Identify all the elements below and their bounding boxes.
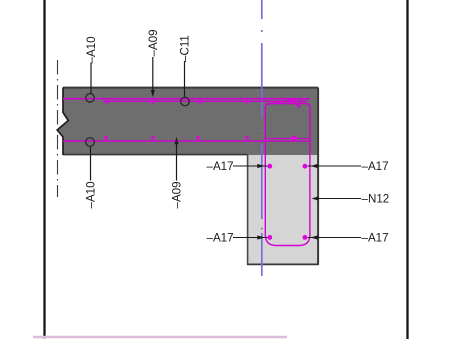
svg-text:–A17: –A17 bbox=[362, 160, 389, 173]
svg-text:–N12: –N12 bbox=[362, 193, 390, 206]
A17 corner bar dot top-left bbox=[267, 164, 272, 169]
rebar A09 bottom bar line bbox=[63, 140, 311, 142]
A17 corner bar dot bottom-right bbox=[303, 235, 308, 240]
top corner bar dot bbox=[290, 99, 295, 104]
label A17 right-bottom arrowhead bbox=[311, 235, 318, 239]
label A10 top leader bbox=[90, 63, 92, 94]
label N12 leader bbox=[318, 198, 361, 200]
stirrup N12 outline bbox=[265, 104, 310, 246]
label A17 right-bottom leader bbox=[308, 237, 361, 239]
beam/slab right edge bbox=[317, 88, 319, 265]
svg-text:–A17: –A17 bbox=[207, 160, 234, 173]
svg-text:–A09: –A09 bbox=[147, 29, 160, 56]
rebar A09 top bar line bbox=[63, 98, 310, 100]
label A10 bottom leader bbox=[90, 147, 92, 181]
slab bottom edge bbox=[63, 154, 248, 156]
bottom distribution bar dots bbox=[104, 136, 248, 139]
label A09 top arrowhead bbox=[151, 90, 155, 97]
A17 corner bar dot top-right bbox=[303, 164, 308, 169]
rebar joint bottom layer line bbox=[265, 137, 309, 139]
A17 corner bar dot bottom-left bbox=[267, 235, 272, 240]
centerline (black dash-dot, left) bbox=[57, 60, 59, 197]
beam cross-section fill bbox=[248, 155, 319, 265]
label A17 right-top arrowhead bbox=[311, 164, 318, 168]
slab cross-section fill bbox=[57, 88, 318, 156]
slab top edge bbox=[63, 87, 318, 89]
label A17 left-bottom leader bbox=[233, 237, 267, 239]
label A17 left-top arrowhead bbox=[257, 164, 264, 168]
svg-text:–C11: –C11 bbox=[179, 35, 192, 62]
svg-text:–A17: –A17 bbox=[207, 232, 234, 245]
label A09 top leader bbox=[152, 57, 154, 91]
beam bottom edge bbox=[247, 263, 319, 265]
rebar top second layer line bbox=[103, 100, 307, 102]
stirrup hook tail bbox=[299, 99, 301, 108]
A10 bar circle top bbox=[86, 94, 95, 103]
label A17 right-top leader bbox=[308, 165, 361, 167]
label A17 left-bottom arrowhead bbox=[257, 235, 264, 239]
C11 bar circle bbox=[181, 97, 190, 106]
border frame right line bbox=[406, 0, 408, 339]
stirrup hook diagonal 2 bbox=[289, 99, 300, 108]
blue section centerline (dash-dot) bbox=[261, 0, 263, 276]
label C11 top leader bbox=[184, 61, 186, 97]
label A09 bottom leader bbox=[176, 143, 178, 181]
stirrup hook diagonal 1 bbox=[267, 99, 296, 105]
svg-text:–A10: –A10 bbox=[85, 36, 98, 63]
svg-text:–A09: –A09 bbox=[171, 181, 184, 208]
border frame left line bbox=[43, 0, 45, 339]
svg-text:–A17: –A17 bbox=[362, 232, 389, 245]
top distribution bar dots bbox=[106, 100, 249, 103]
beam left edge bbox=[247, 155, 249, 265]
pink bottom edge line bbox=[33, 336, 287, 339]
label A09 bottom arrowhead bbox=[175, 137, 179, 145]
A10 bar circle bottom bbox=[86, 138, 95, 147]
label N12 arrowhead bbox=[312, 196, 319, 200]
label A17 left-top leader bbox=[233, 165, 267, 167]
bottom corner bar dot bbox=[292, 136, 297, 141]
slab left break edge bbox=[57, 88, 68, 156]
svg-text:–A10: –A10 bbox=[85, 181, 98, 208]
